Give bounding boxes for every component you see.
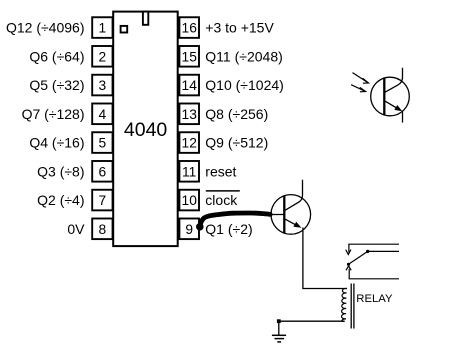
svg-text:Q9 (÷512): Q9 (÷512) bbox=[205, 135, 268, 151]
svg-text:12: 12 bbox=[182, 136, 197, 151]
svg-text:Q10 (÷1024): Q10 (÷1024) bbox=[205, 77, 284, 93]
svg-text:RELAY: RELAY bbox=[356, 293, 393, 305]
net label Q9 (÷512) (pin 12) bbox=[205, 135, 268, 151]
net label Q10 (÷1024) (pin 14) bbox=[205, 77, 284, 93]
svg-text:reset: reset bbox=[205, 163, 236, 179]
pin 12 box bbox=[179, 132, 199, 153]
relay core line 1 bbox=[350, 284, 352, 329]
contact common line (middle) bbox=[368, 250, 399, 252]
pin 1 box bbox=[92, 17, 112, 38]
svg-text:15: 15 bbox=[182, 49, 198, 64]
net label Q8 (÷256) (pin 13) bbox=[205, 106, 268, 122]
net label 0V (pin 8) bbox=[67, 221, 85, 237]
svg-text:0V: 0V bbox=[67, 221, 85, 237]
transistor Q2 emitter with arrow bbox=[285, 219, 302, 228]
relay core line 2 bbox=[353, 284, 355, 329]
ground symbol bbox=[272, 335, 286, 342]
pin 3 box bbox=[92, 75, 112, 96]
svg-text:Q5 (÷32): Q5 (÷32) bbox=[29, 77, 84, 93]
svg-text:5: 5 bbox=[99, 136, 107, 151]
net label Q3 (÷8) (pin 6) bbox=[37, 163, 84, 179]
svg-text:Q3 (÷8): Q3 (÷8) bbox=[37, 163, 84, 179]
net label Q4 (÷16) (pin 5) bbox=[29, 135, 84, 151]
svg-text:2: 2 bbox=[99, 49, 107, 64]
svg-text:14: 14 bbox=[182, 78, 198, 93]
contact NO line (bottom) with up arrow bbox=[346, 266, 399, 279]
net label Q11 (÷2048) (pin 15) bbox=[205, 48, 282, 64]
pin 9 box bbox=[179, 219, 199, 240]
svg-text:Q1 (÷2): Q1 (÷2) bbox=[205, 221, 252, 237]
pin 13 box bbox=[179, 104, 199, 125]
pin 8 box bbox=[92, 219, 112, 240]
svg-text:1: 1 bbox=[99, 21, 107, 36]
svg-text:Q8 (÷256): Q8 (÷256) bbox=[205, 106, 268, 122]
svg-text:8: 8 bbox=[99, 222, 107, 237]
svg-text:4: 4 bbox=[99, 107, 107, 122]
net label Q5 (÷32) (pin 3) bbox=[29, 77, 84, 93]
phototransistor Q1 circle bbox=[371, 77, 410, 116]
pin 10 box bbox=[179, 190, 199, 211]
net label clock (pin 10, active-low overline) bbox=[205, 191, 240, 208]
relay coil winding bbox=[342, 288, 347, 321]
transistor Q2 collector bbox=[285, 180, 303, 211]
svg-text:+3 to +15V: +3 to +15V bbox=[205, 20, 274, 36]
net label +3 to +15V (pin 16) bbox=[205, 20, 274, 36]
contact NC line (top) with down arrow bbox=[346, 244, 399, 254]
IC U1 4040 body bbox=[113, 12, 178, 247]
transistor Q2 circle bbox=[271, 195, 311, 235]
relay label RELAY bbox=[356, 293, 393, 305]
pin 16 box bbox=[179, 17, 199, 38]
pin 11 box bbox=[179, 161, 199, 182]
IC top notch bbox=[143, 12, 148, 25]
pin 7 box bbox=[92, 190, 112, 211]
net label Q12 (÷4096) (pin 1) bbox=[6, 20, 85, 36]
contact armature lever bbox=[347, 250, 370, 266]
net label Q7 (÷128) (pin 4) bbox=[22, 106, 85, 122]
pin 15 box bbox=[179, 46, 199, 67]
junction dot bbox=[277, 319, 281, 323]
wire Q2 emitter down to relay coil bbox=[303, 228, 347, 289]
pin 14 box bbox=[179, 75, 199, 96]
transistor Q2 base bar bbox=[283, 196, 285, 233]
svg-text:16: 16 bbox=[182, 21, 198, 36]
svg-text:clock: clock bbox=[205, 192, 238, 208]
svg-text:3: 3 bbox=[99, 78, 107, 93]
svg-text:4040: 4040 bbox=[124, 119, 168, 141]
light arrow 1 into phototransistor bbox=[353, 73, 369, 84]
pin 2 box bbox=[92, 46, 112, 67]
net label reset (pin 11) bbox=[205, 163, 236, 179]
svg-text:Q12 (÷4096): Q12 (÷4096) bbox=[6, 20, 85, 36]
hand-drawn wire from pin 9 to Q2 base bbox=[196, 213, 270, 231]
pin 6 box bbox=[92, 161, 112, 182]
svg-text:Q2 (÷4): Q2 (÷4) bbox=[37, 192, 84, 208]
net label Q6 (÷64) (pin 2) bbox=[29, 48, 84, 64]
wire junction down to ground bbox=[278, 321, 280, 335]
svg-text:Q11 (÷2048): Q11 (÷2048) bbox=[205, 48, 282, 64]
svg-text:Q4 (÷16): Q4 (÷16) bbox=[29, 135, 84, 151]
svg-text:13: 13 bbox=[182, 107, 198, 122]
svg-text:6: 6 bbox=[99, 164, 107, 179]
transistor Q2 base lead bbox=[268, 214, 284, 216]
pin 1 marker dot bbox=[121, 26, 128, 33]
pin 5 box bbox=[92, 132, 112, 153]
wire relay coil bottom to ground junction bbox=[279, 320, 345, 322]
svg-text:10: 10 bbox=[182, 193, 198, 208]
net label Q1 (÷2) (pin 9) bbox=[205, 221, 252, 237]
pin 4 box bbox=[92, 104, 112, 125]
phototransistor Q1 base bar bbox=[383, 78, 385, 115]
svg-text:11: 11 bbox=[182, 164, 196, 179]
light arrow 2 into phototransistor bbox=[351, 85, 366, 92]
svg-text:Q6 (÷64): Q6 (÷64) bbox=[29, 48, 84, 64]
phototransistor Q1 emitter with arrow bbox=[385, 101, 403, 123]
IC label 4040 bbox=[124, 119, 168, 141]
svg-text:Q7 (÷128): Q7 (÷128) bbox=[22, 106, 85, 122]
net label Q2 (÷4) (pin 7) bbox=[37, 192, 84, 208]
phototransistor Q1 collector bbox=[385, 68, 403, 93]
svg-text:9: 9 bbox=[185, 222, 193, 237]
svg-text:7: 7 bbox=[99, 193, 107, 208]
